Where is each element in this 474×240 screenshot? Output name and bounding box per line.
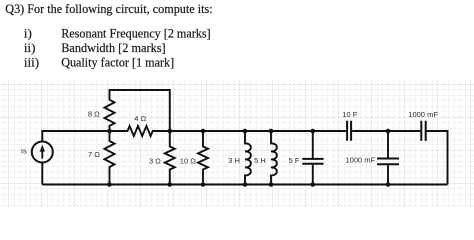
svg-text:i): i)	[24, 26, 32, 41]
svg-text:4 Ω: 4 Ω	[134, 114, 146, 123]
svg-text:Quality factor [1 mark]: Quality factor [1 mark]	[61, 55, 174, 70]
svg-text:3 Ω: 3 Ω	[149, 156, 161, 165]
svg-text:1000 mF: 1000 mF	[346, 156, 376, 165]
svg-text:1000 mF: 1000 mF	[408, 110, 438, 119]
svg-text:Q3) For the following circuit,: Q3) For the following circuit, compute i…	[5, 1, 212, 16]
svg-text:5 F: 5 F	[289, 156, 300, 165]
svg-text:5 H: 5 H	[254, 156, 266, 165]
svg-text:ii): ii)	[24, 40, 36, 55]
svg-text:8 Ω: 8 Ω	[88, 109, 100, 118]
svg-text:Is: Is	[21, 146, 27, 155]
svg-text:iii): iii)	[24, 55, 39, 70]
svg-text:Bandwidth [2 marks]: Bandwidth [2 marks]	[61, 40, 165, 55]
svg-text:7 Ω: 7 Ω	[88, 150, 100, 159]
svg-text:Resonant Frequency [2 marks]: Resonant Frequency [2 marks]	[61, 26, 211, 41]
svg-text:10 F: 10 F	[342, 110, 357, 119]
svg-text:10 Ω: 10 Ω	[180, 156, 196, 165]
svg-text:3 H: 3 H	[228, 156, 240, 165]
